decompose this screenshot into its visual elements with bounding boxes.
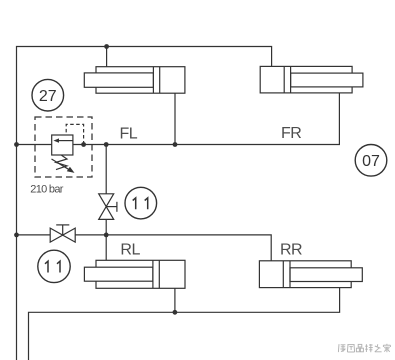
wire: shut-off valve V1 to lower bus bbox=[105, 219, 107, 235]
wire: middle bus right of relief valve to FR riser bbox=[73, 93, 340, 145]
node middle bus / FL bottom port junction bbox=[173, 142, 178, 147]
cylinder FL bbox=[84, 67, 185, 94]
svg-text:RR: RR bbox=[280, 241, 302, 258]
wire: bottom return bus bbox=[29, 288, 340, 360]
relief valve U27 body square bbox=[52, 135, 73, 155]
watermark bbox=[338, 344, 390, 352]
node left bus / lower bus junction bbox=[14, 233, 19, 238]
node junction left bus / middle bus bbox=[14, 142, 19, 147]
svg-text:07: 07 bbox=[362, 153, 380, 170]
cylinder RL bbox=[84, 260, 185, 288]
node pilot tap junction bbox=[81, 142, 86, 147]
balloon 07 bbox=[355, 145, 387, 177]
wire: drop from middle bus to shut-off valve V1 bbox=[105, 145, 107, 194]
wire: FL top port drop bbox=[106, 47, 108, 67]
valve V1 shut-off (vertical) bbox=[99, 194, 117, 220]
node lower bus 4-way junction bbox=[104, 233, 109, 238]
balloon 27 bbox=[32, 79, 64, 111]
svg-text:210 bar: 210 bar bbox=[30, 184, 63, 196]
wire: FL bottom port drop bbox=[174, 93, 176, 144]
relief valve U27 flow arrow bbox=[53, 138, 73, 142]
cylinder RR bbox=[259, 261, 362, 288]
svg-text:FR: FR bbox=[281, 125, 301, 142]
wire: RL top port drop bbox=[105, 235, 107, 260]
wire: left supply bus vertical bbox=[17, 47, 272, 360]
node bottom bus / RL bottom port junction bbox=[173, 310, 178, 315]
relief valve U27 adjust arrow bbox=[52, 159, 75, 173]
relief valve U27 pilot line bbox=[66, 124, 83, 144]
svg-text:FL: FL bbox=[120, 126, 138, 143]
node middle bus / valve drop junction bbox=[104, 142, 109, 147]
relief valve U27 spring bbox=[56, 155, 67, 169]
balloon 11 upper bbox=[125, 187, 157, 219]
wire: RL bottom port drop bbox=[174, 288, 176, 312]
cylinder FR bbox=[260, 66, 363, 93]
balloon 11 lower bbox=[38, 250, 70, 282]
wire: lower bus left segment bbox=[17, 234, 51, 236]
node junction on top bus bbox=[104, 44, 109, 49]
svg-text:RL: RL bbox=[120, 241, 140, 258]
valve V2 shut-off (horizontal) bbox=[50, 225, 75, 242]
wire: lower bus right segment to RR riser bbox=[75, 235, 271, 261]
wire: middle bus left of relief valve bbox=[17, 144, 52, 146]
relief valve U27 dashed enclosure bbox=[35, 117, 92, 177]
svg-text:27: 27 bbox=[39, 88, 57, 105]
